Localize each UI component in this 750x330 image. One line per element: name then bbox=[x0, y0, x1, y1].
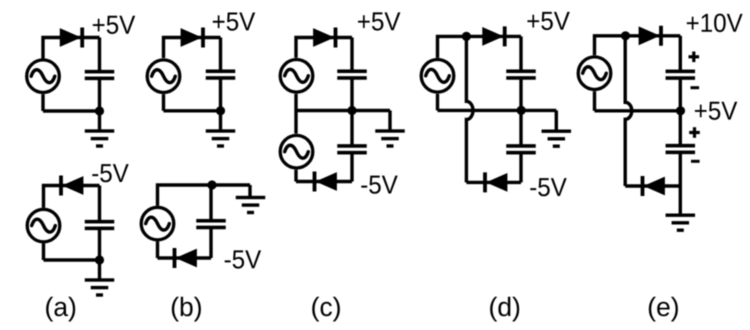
circuit (e): capacitor 1 plus sign bbox=[689, 52, 700, 63]
circuit (a) top: wire right branch lower bbox=[98, 78, 101, 111]
circuit (a) bottom: wire right branch lower bbox=[98, 228, 101, 260]
circuit (c): AC source 2 bbox=[280, 135, 313, 168]
circuit (e): wire middle bbox=[595, 109, 681, 112]
circuit (b) bottom: wire bottom bbox=[158, 256, 212, 259]
circuit (a) top: label +5V bbox=[93, 16, 135, 34]
circuit (d): wire source bottom lead bbox=[436, 94, 439, 111]
circuit (e): diode pointing right bbox=[639, 26, 663, 46]
circuit (d): wire right branch bottom bbox=[519, 152, 522, 182]
circuit (c): wire ground stub bbox=[388, 111, 391, 131]
circuit (d): wire bottom bbox=[466, 181, 521, 184]
circuit (a) top: wire source bottom lead bbox=[41, 94, 44, 111]
circuit (a) top: diode pointing right bbox=[60, 28, 84, 48]
label (d) bbox=[490, 297, 519, 322]
circuit (e): diode pointing left bbox=[641, 176, 665, 196]
circuit (c): diode pointing left bbox=[313, 172, 337, 192]
circuit (e): capacitor 1 bbox=[666, 70, 696, 80]
circuit (b) bottom: wire source bottom lead bbox=[156, 242, 159, 259]
circuit (b) top: wire right branch lower bbox=[219, 78, 222, 111]
circuit (b) bottom: label -5V bbox=[225, 250, 261, 268]
circuit (e): wire top rail bbox=[595, 36, 681, 56]
circuit (e): wire right branch middle bbox=[679, 78, 682, 146]
circuit (b) top: label +5V bbox=[213, 13, 255, 31]
circuit (d): wire middle bbox=[438, 109, 557, 112]
circuit (b) top: capacitor bbox=[206, 69, 236, 79]
circuit (e): junction dot middle bbox=[676, 106, 685, 115]
circuit (d): AC source bbox=[421, 60, 454, 93]
circuit (c): wire right branch top bbox=[350, 38, 353, 72]
circuit (d): junction dot top bbox=[462, 32, 471, 41]
circuit (c): wire source2 bottom lead bbox=[294, 170, 297, 182]
circuit (d): diode pointing right bbox=[482, 26, 506, 46]
circuit (e): junction dot top bbox=[621, 31, 630, 40]
circuit (b) bottom: diode pointing left bbox=[173, 248, 197, 268]
circuit (b) bottom: ground bbox=[236, 196, 266, 214]
circuit (a) bottom: wire source bottom lead bbox=[42, 244, 45, 261]
circuit (b) top: AC source bbox=[147, 60, 180, 93]
circuit (e): wire right branch bottom bbox=[679, 152, 682, 214]
circuit (e): wire right branch top bbox=[679, 36, 682, 72]
circuit (a) bottom: AC source bbox=[27, 209, 60, 242]
circuit (d): wire ground stub bbox=[555, 110, 558, 130]
circuit (e): ground bbox=[666, 214, 696, 232]
circuit (e): capacitor 2 minus sign bbox=[691, 160, 700, 163]
circuit (a) bottom: capacitor bbox=[85, 220, 115, 230]
circuit (a) bottom: wire bottom bbox=[44, 258, 100, 261]
circuit (a) bottom: ground bbox=[85, 278, 115, 296]
circuit (c): ground bbox=[375, 129, 405, 147]
circuit (d): ground bbox=[542, 130, 572, 148]
circuit (c): capacitor 2 bbox=[337, 144, 367, 154]
circuit (a) bottom: wire top-left L bbox=[44, 186, 100, 208]
circuit (c): label -5V bbox=[361, 176, 397, 194]
circuit (d): wire top rail bbox=[438, 36, 522, 58]
circuit (e): wire vertical with hop bbox=[625, 36, 632, 186]
circuit (b) top: wire right branch upper bbox=[219, 38, 222, 72]
circuit (a) top: wire top-left L bbox=[43, 38, 100, 60]
circuit (d): diode pointing left bbox=[483, 172, 507, 192]
circuit (b) bottom: junction dot bbox=[207, 180, 216, 189]
circuit (b) bottom: wire middle branch lower bbox=[209, 227, 212, 258]
circuit (d): junction dot middle bbox=[517, 106, 526, 115]
circuit (b) top: wire top-left L bbox=[164, 38, 221, 59]
circuit (b) top: junction dot bbox=[216, 106, 225, 115]
label (b) bbox=[172, 297, 201, 322]
circuit (a) top: wire ground stub bbox=[98, 111, 101, 130]
circuit (e): capacitor 1 minus sign bbox=[691, 86, 700, 89]
circuit (c): wire between sources bbox=[294, 94, 297, 134]
circuit (a) top: ground bbox=[85, 129, 115, 147]
circuit (c): label +5V bbox=[358, 12, 400, 30]
circuit (e): wire source bottom lead bbox=[593, 91, 596, 111]
circuit (d): wire right branch top bbox=[519, 36, 522, 71]
circuit (c): AC source 1 bbox=[280, 60, 313, 93]
circuit (e): capacitor 2 bbox=[666, 144, 696, 154]
circuit (c): wire right branch middle bbox=[350, 78, 353, 147]
circuit (d): wire right branch middle bbox=[519, 78, 522, 147]
circuit (e): capacitor 2 plus sign bbox=[689, 127, 700, 138]
circuit (a) top: wire bottom bbox=[43, 109, 100, 112]
circuit (e): AC source bbox=[578, 57, 611, 90]
circuit (c): junction dot bbox=[347, 106, 356, 115]
circuit (a) bottom: wire ground stub bbox=[98, 260, 101, 279]
circuit (a) top: AC source bbox=[27, 60, 60, 93]
circuit (a) top: wire right branch upper bbox=[98, 38, 101, 73]
circuit (b) bottom: wire middle branch upper bbox=[209, 185, 212, 221]
circuit (a) bottom: diode pointing left bbox=[59, 176, 83, 196]
circuit (a) top: capacitor bbox=[85, 70, 115, 80]
circuit (a) bottom: junction dot bbox=[95, 255, 104, 264]
label (a) bbox=[46, 297, 75, 322]
circuit (c): wire right branch bottom bbox=[350, 152, 353, 181]
circuit (d): label -5V bbox=[530, 178, 566, 196]
label (c) bbox=[312, 297, 340, 322]
circuit (a) bottom: wire right branch upper bbox=[98, 186, 101, 222]
circuit (c): capacitor 1 bbox=[337, 69, 367, 79]
circuit (d): wire vertical with hop bbox=[466, 36, 473, 182]
circuit (e): label +5V bbox=[695, 102, 737, 120]
circuit (a) bottom: label -5V bbox=[92, 164, 128, 182]
circuit (c): diode pointing right bbox=[313, 28, 337, 48]
circuit (b) bottom: capacitor bbox=[196, 219, 226, 229]
circuit (b) top: diode pointing right bbox=[181, 28, 205, 48]
circuit (c): wire bottom bbox=[296, 180, 352, 183]
circuit (b) top: ground bbox=[206, 129, 236, 147]
circuit (b) top: wire source bottom lead bbox=[162, 94, 165, 111]
circuit (b) top: wire bottom bbox=[164, 109, 221, 112]
circuit (d): capacitor 2 bbox=[506, 144, 536, 154]
circuit (a) top: junction dot bbox=[95, 106, 104, 115]
circuit (d): capacitor 1 bbox=[506, 69, 536, 79]
circuit (d): label +5V bbox=[527, 12, 569, 30]
circuit (c): wire top-left L bbox=[296, 38, 352, 58]
circuit (e): label +10V bbox=[687, 14, 743, 33]
label (e) bbox=[649, 297, 678, 322]
circuit (e): wire bottom bbox=[625, 184, 680, 187]
circuit (c): wire middle bbox=[296, 109, 390, 112]
circuit (b) bottom: AC source bbox=[141, 207, 174, 240]
circuit (b) top: wire ground stub bbox=[219, 111, 222, 130]
circuit (b) bottom: wire top rail bbox=[158, 185, 251, 206]
circuit (b) bottom: wire ground stub bbox=[248, 185, 251, 197]
